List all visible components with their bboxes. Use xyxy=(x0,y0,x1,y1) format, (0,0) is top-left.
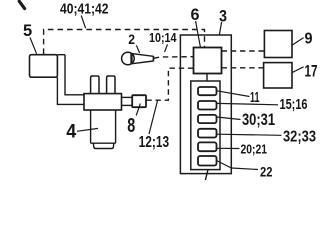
leader 4 xyxy=(77,128,98,131)
dashed control line 40;41;42 xyxy=(44,30,205,55)
svg-text:32;33: 32;33 xyxy=(283,128,316,145)
dashed control line 12;13 xyxy=(146,68,193,100)
svg-text:22: 22 xyxy=(260,163,273,179)
stack box xyxy=(191,81,220,170)
leader 20;21 xyxy=(217,147,240,149)
svg-text:30;31: 30;31 xyxy=(242,111,275,129)
cylinder 4 right wall xyxy=(115,110,117,143)
microphone cone top xyxy=(132,54,154,57)
svg-text:40;41;42: 40;41;42 xyxy=(60,0,109,17)
svg-text:3: 3 xyxy=(219,6,227,25)
svg-text:12;13: 12;13 xyxy=(139,134,170,151)
cylinder 4 bottom cap xyxy=(93,143,113,148)
valve body xyxy=(84,94,122,110)
figure number stroke fragment xyxy=(19,1,24,8)
svg-text:4: 4 xyxy=(66,121,76,143)
leader 9 xyxy=(292,38,304,46)
leader 17 xyxy=(292,67,304,73)
box 17 xyxy=(264,63,292,88)
leader 40;41;42 xyxy=(81,16,85,29)
leader 15;16 xyxy=(217,103,278,104)
leader 2 xyxy=(136,45,139,53)
relay cell 15;16 xyxy=(198,101,217,110)
pipe from box 5 (top edge) xyxy=(57,54,65,56)
cylinder 4 bottom edge xyxy=(91,142,116,144)
stub box 6 to stack xyxy=(206,74,208,82)
pipe outer wall xyxy=(57,77,84,104)
dashed microphone line xyxy=(154,57,194,59)
connector lower line xyxy=(122,104,132,106)
cylinder 4 left wall xyxy=(90,110,92,143)
svg-text:8: 8 xyxy=(127,114,135,137)
svg-text:17: 17 xyxy=(305,62,318,81)
relay cell 11 xyxy=(198,87,217,95)
prong 1 xyxy=(91,76,99,94)
relay cell 20;21 xyxy=(198,142,217,151)
leader 32;33 xyxy=(217,134,282,135)
leader 30;31 xyxy=(217,117,241,120)
transmitter box 5 xyxy=(30,55,58,77)
leader 22 xyxy=(217,161,258,170)
leader 12;13 xyxy=(149,100,158,135)
svg-text:9: 9 xyxy=(305,30,313,47)
relay cell 30;31 xyxy=(198,115,217,123)
leader 6 xyxy=(196,21,201,47)
pipe inner wall xyxy=(65,55,84,95)
svg-text:10;14: 10;14 xyxy=(149,31,177,45)
box 8 xyxy=(132,95,146,107)
svg-text:11: 11 xyxy=(250,89,260,106)
line below stack xyxy=(205,170,208,180)
control unit box 3 xyxy=(180,35,231,174)
microphone capsule divider xyxy=(130,53,132,64)
microphone cone end cap xyxy=(152,56,154,61)
leader 10;14 xyxy=(165,44,168,52)
connector upper line xyxy=(122,96,132,98)
microphone 2 head xyxy=(122,52,135,65)
dashed line to box 17 xyxy=(222,67,264,69)
relay cell 22 xyxy=(198,156,217,166)
svg-text:6: 6 xyxy=(191,5,200,24)
dashed line to box 9 xyxy=(222,50,265,52)
prong 2 xyxy=(107,76,115,94)
svg-text:15;16: 15;16 xyxy=(280,97,308,113)
svg-text:5: 5 xyxy=(23,22,32,40)
svg-text:20;21: 20;21 xyxy=(241,142,268,157)
microphone cone bottom xyxy=(132,61,153,64)
svg-text:2: 2 xyxy=(128,32,135,47)
leader 5 xyxy=(30,38,37,54)
leader 11 xyxy=(217,91,250,97)
leader 3 xyxy=(219,22,221,35)
box 6 xyxy=(194,48,222,74)
leader 8 xyxy=(136,104,140,116)
box 9 xyxy=(264,31,292,58)
relay cell 32;33 xyxy=(198,129,217,138)
